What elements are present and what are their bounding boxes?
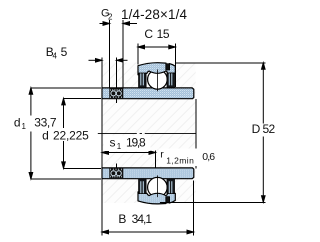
left seal band bbox=[139, 73, 147, 88]
set screw block bbox=[109, 88, 123, 98]
svg-text:r: r bbox=[160, 149, 164, 161]
d1 ext lines bbox=[31, 87, 101, 89]
svg-text:19,8: 19,8 bbox=[126, 135, 146, 149]
s1 right ext bbox=[155, 151, 157, 168]
svg-text:22,225: 22,225 bbox=[53, 128, 89, 142]
svg-text:15: 15 bbox=[157, 27, 170, 41]
svg-text:4: 4 bbox=[53, 52, 58, 61]
inner ring bar bbox=[102, 88, 194, 99]
axis centerline bbox=[98, 132, 197, 134]
bottom half section (mirror of top) bbox=[102, 168, 194, 204]
svg-text:1: 1 bbox=[22, 122, 27, 131]
G2 dim arrows bbox=[100, 23, 110, 25]
faint hatch zone of drawing bbox=[102, 63, 196, 204]
svg-text:2: 2 bbox=[108, 13, 113, 22]
B dim bbox=[102, 231, 194, 233]
relube notch bbox=[166, 63, 169, 69]
svg-text:D: D bbox=[252, 122, 261, 136]
screw centerline bottom bbox=[116, 164, 118, 168]
G2 ext lines bbox=[109, 20, 111, 88]
label box s1 bbox=[104, 136, 151, 152]
D dim bbox=[262, 63, 264, 124]
outer ring mass bbox=[138, 63, 175, 75]
bore right edge line bbox=[195, 99, 197, 168]
right seal band bbox=[167, 73, 175, 88]
svg-text:d: d bbox=[42, 128, 49, 142]
svg-text:1: 1 bbox=[117, 142, 122, 151]
d dim bbox=[63, 98, 65, 128]
svg-text:34,1: 34,1 bbox=[132, 212, 153, 226]
svg-text:B: B bbox=[118, 212, 126, 226]
svg-text:1,2min: 1,2min bbox=[166, 155, 194, 165]
svg-text:d: d bbox=[14, 116, 21, 130]
ball bbox=[148, 70, 168, 90]
svg-text:C: C bbox=[144, 27, 153, 41]
svg-text:1/4-28×1/4: 1/4-28×1/4 bbox=[121, 7, 188, 22]
D ext lines bbox=[176, 62, 266, 64]
d ext lines bbox=[64, 97, 102, 99]
s1 dim bbox=[102, 152, 156, 154]
svg-text:s: s bbox=[110, 135, 116, 149]
B4 dim arrows bbox=[89, 59, 103, 61]
svg-text:0,6: 0,6 bbox=[202, 151, 215, 163]
screw centerline top bbox=[116, 58, 118, 88]
C ext lines bbox=[137, 44, 139, 65]
svg-text:52: 52 bbox=[263, 122, 276, 136]
B right ext bbox=[193, 181, 195, 236]
ball centerline bbox=[156, 70, 158, 92]
C dim bbox=[138, 46, 175, 48]
svg-text:5: 5 bbox=[61, 45, 68, 59]
label box r bbox=[159, 149, 197, 167]
d1 dim bbox=[30, 88, 32, 116]
left face vertical line bbox=[101, 58, 103, 236]
